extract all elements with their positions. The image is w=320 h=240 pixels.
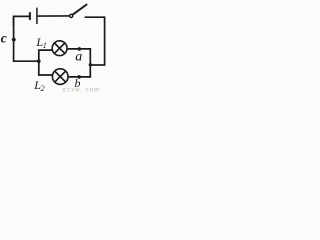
switch lever (open) xyxy=(73,4,88,15)
wire: left vertical with node c xyxy=(14,16,39,61)
switch pivot (small circle) xyxy=(70,14,73,17)
wire: lamp L2 output xyxy=(68,76,91,78)
wire: bus bottom horizontal to mid-right vertical xyxy=(90,64,105,66)
junction dot (left branch split) xyxy=(37,59,41,63)
junction dot at bus/branch meet xyxy=(89,63,92,66)
wire: battery to switch xyxy=(38,15,70,17)
node a dot xyxy=(78,47,82,51)
wire: lamp L1 input with corner down to junction xyxy=(39,50,53,61)
battery cell: short thick plate (negative) xyxy=(29,12,31,20)
svg-text:1: 1 xyxy=(43,41,47,50)
svg-text:2: 2 xyxy=(41,84,45,93)
wire: junction down to lamp L2 input xyxy=(39,61,53,75)
svg-text:ezxw. com: ezxw. com xyxy=(63,88,101,93)
wire: top-left horizontal (corner to battery) xyxy=(14,16,30,26)
wire: lamp L1 output xyxy=(67,48,91,50)
svg-text:c: c xyxy=(1,31,7,46)
svg-text:a: a xyxy=(75,49,82,64)
node c dot xyxy=(12,38,16,42)
lamp L1 (circle with X) xyxy=(52,41,67,56)
background xyxy=(0,0,108,93)
wire: mid-right vertical joining both lamp outputs xyxy=(89,48,91,77)
battery cell: long plate (positive) xyxy=(36,8,38,25)
node b dot xyxy=(77,75,81,79)
wire: switch to top-right corner and right bus down xyxy=(85,17,105,65)
lamp L2 (circle with X) xyxy=(52,69,68,85)
